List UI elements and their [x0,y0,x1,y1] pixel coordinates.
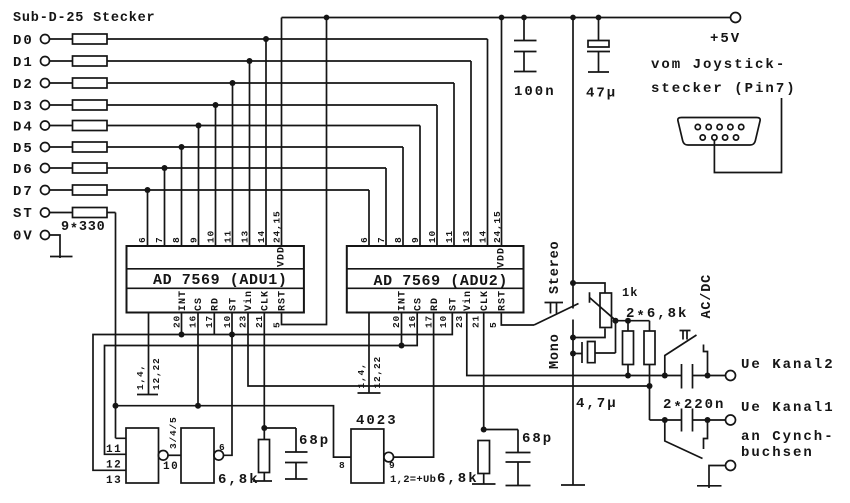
svg-text:4023: 4023 [356,413,398,429]
svg-text:13: 13 [240,230,251,243]
svg-text:RST: RST [498,290,509,311]
svg-text:11: 11 [106,444,122,456]
wire U1 Vin to Kanal1 coupling [248,313,649,387]
svg-text:6: 6 [219,442,226,453]
potentiometer 1k [573,283,638,338]
svg-text:CLK: CLK [480,290,491,311]
wire U1 CLK pin down [263,313,265,440]
wire gate U3a out to U3b [168,454,182,456]
svg-text:AD 7569 (ADU1): AD 7569 (ADU1) [153,272,287,289]
wire U1 ST pin to gate2 output [223,313,232,456]
wire pin7 annotation [714,98,781,173]
svg-text:ST: ST [229,297,240,311]
svg-text:8: 8 [393,236,404,243]
svg-text:14: 14 [478,230,489,243]
node +5V terminal [731,13,741,23]
junction rail x326.5 [324,15,330,21]
capacitor 220n Kanal1 [682,409,693,432]
junction D2 [230,80,236,86]
connector joystick DB9 shell [678,118,760,146]
junction pot bottom [570,335,576,341]
svg-text:VDD: VDD [497,247,508,268]
wire U1 RST to +5V [282,18,327,325]
junction D1 [247,58,253,64]
resistor R D5 [73,142,108,152]
capacitor 4,7u electrolytic [573,321,618,412]
svg-text:AD 7569 (ADU2): AD 7569 (ADU2) [374,273,508,290]
op-amp U1 AD7569 ADU1 body [127,246,304,313]
svg-text:7: 7 [154,236,165,243]
junction Kanal1 right [705,417,711,423]
U1 pin numbers bottom [172,315,283,328]
svg-text:Ue Kanal2: Ue Kanal2 [741,357,835,373]
gate U3a 4023 [106,428,179,487]
junction rail x598.5 [596,15,602,21]
wire U2 INT pin [401,313,403,346]
U2 pin numbers bottom [391,315,499,328]
svg-text:stecker (Pin7): stecker (Pin7) [651,81,797,97]
svg-text:10: 10 [163,461,179,473]
svg-text:1k: 1k [622,286,638,300]
junction rail x501.5 [499,15,505,21]
svg-text:AC/DC: AC/DC [700,274,715,319]
node Ue Kanal1 terminal [726,415,736,425]
wire ST strobe line to gate pin11 and bus C [116,406,352,457]
ground symbol right [697,485,722,487]
wire D5 [50,147,404,246]
resistor 6,8k b [437,441,496,488]
junction Kanal2 left [662,373,668,379]
node Ue Kanal2 terminal [726,371,736,381]
junction ST U1 on bus A [229,332,235,338]
svg-text:4,7µ: 4,7µ [576,396,618,412]
svg-text:21: 21 [254,315,265,328]
svg-text:21: 21 [471,315,482,328]
junction D5 [179,144,185,150]
junction Ra Kanal2 [625,373,631,379]
svg-text:CS: CS [414,297,425,311]
wire +5V drop x573 upper [572,18,574,309]
ground 0V [50,256,73,258]
svg-text:68p: 68p [522,431,553,447]
svg-text:9*330: 9*330 [61,220,106,238]
svg-text:1,2=+Ub: 1,2=+Ub [390,474,436,486]
junction D0 [263,36,269,42]
svg-text:7: 7 [376,236,387,243]
junction Vin U1 line at R 6,8k b [647,383,653,389]
svg-text:+5V: +5V [710,31,741,47]
node D5 [13,141,50,157]
resistor 6,8k a [218,440,272,489]
junction CLK U2 [481,427,487,433]
junction rail x524 [521,15,527,21]
junction 4,7u at x573 [570,351,576,357]
svg-text:8: 8 [339,460,346,471]
svg-text:10: 10 [427,230,438,243]
wire U2 CLK pin down [483,313,485,430]
wire U1 pin 24,15 to +5V rail [281,18,283,247]
node D3 [13,99,50,115]
svg-text:vom Joystick-: vom Joystick- [651,57,786,73]
svg-text:buchsen: buchsen [741,445,814,461]
svg-text:16: 16 [188,315,199,328]
node D0 [13,33,50,49]
resistor 2x6,8k Ra [623,331,634,365]
resistor R D0 [73,34,108,44]
svg-text:ST: ST [449,297,460,311]
svg-text:12: 12 [106,460,122,472]
svg-text:Stereo: Stereo [548,241,563,294]
wire ST [50,213,116,439]
junction D7 [145,187,151,193]
wire U2 RD to gate3 output [393,313,433,458]
switch ground Kanal1 [665,420,708,459]
junction D3 [213,102,219,108]
resistor R D2 [73,78,108,88]
junction CLK U1 [261,425,267,431]
svg-text:3/4/5: 3/4/5 [168,416,179,449]
ground pins 1,4,12,22 U1 [135,313,162,395]
junction CS U1 on bus C [195,403,201,409]
svg-text:47µ: 47µ [586,86,617,102]
gate U3c 4023 [339,413,398,483]
wire bus A (INT/RD/ST U1 to ST U2, to gate pin13) [93,313,452,471]
svg-text:0V: 0V [13,229,34,245]
wire ground drop x573 lower [561,320,585,486]
resistor R D7 [73,185,108,195]
wire Ra bottom to Kanal2 line [627,365,629,376]
wire 0V [50,235,61,258]
wire D0 [50,39,488,246]
capacitor 100n [514,18,537,72]
svg-text:14: 14 [256,230,267,243]
svg-text:20: 20 [391,315,402,328]
wire U1 RD pin [213,313,215,335]
svg-text:Vin: Vin [462,290,474,311]
svg-text:23: 23 [454,315,465,328]
connector joystick pins row2 [700,135,739,140]
capacitor 68p b [484,430,554,486]
svg-text:CS: CS [194,297,205,311]
svg-text:D6: D6 [13,162,34,178]
node D6 [13,162,50,178]
svg-text:23: 23 [238,315,249,328]
svg-text:D7: D7 [13,184,34,200]
svg-text:10: 10 [206,230,217,243]
junction ST line [113,403,119,409]
junction INT U1 on bus A [179,332,185,338]
svg-text:5: 5 [488,321,499,328]
U1 pin names bottom [178,290,289,311]
resistor R ST [73,208,108,218]
node ground terminal [726,461,736,471]
svg-text:RST: RST [278,290,289,311]
junction pot top [570,280,576,286]
switch stereo/mono S1 [534,241,579,369]
svg-text:INT: INT [178,290,189,311]
U2 pin names bottom [398,290,509,311]
wire D6 [50,168,387,246]
svg-text:1,4,: 1,4, [356,362,367,388]
svg-text:9: 9 [189,236,200,243]
capacitor 47u electrolytic [587,18,610,73]
svg-text:INT: INT [398,290,409,311]
wire U2 Vin to Kanal2 line [467,313,726,376]
svg-text:ST: ST [13,206,34,222]
svg-text:RD: RD [430,297,441,311]
svg-text:9: 9 [410,236,421,243]
svg-text:6,8k: 6,8k [437,471,479,487]
junction Kanal2 right [705,373,711,379]
capacitor 68p a [264,428,330,479]
svg-text:an Cynch-: an Cynch- [741,429,835,445]
node D2 [13,77,50,93]
ground pins 1,4,12,22 U2 [356,313,383,394]
svg-text:D3: D3 [13,99,34,115]
svg-text:CLK: CLK [261,290,272,311]
svg-text:13: 13 [106,475,122,487]
node ST [13,206,50,222]
wire U2 pin 24,15 to +5V rail [501,18,503,247]
U2 pin numbers top [359,210,503,243]
svg-text:10: 10 [438,315,449,328]
wire wiper node [616,321,650,331]
svg-text:1,4,: 1,4, [135,364,146,390]
junction D6 [162,165,168,171]
wire U1 CS pin [197,313,199,406]
junction Ra top [625,318,631,324]
svg-text:D0: D0 [13,33,34,49]
svg-text:6: 6 [359,236,370,243]
resistor R D1 [73,56,108,66]
wire bus B (INT/CS U2 to gate pin12) [105,313,418,455]
svg-text:D1: D1 [13,55,34,71]
resistor R D3 [73,100,108,110]
svg-text:13: 13 [461,230,472,243]
resistor R D6 [73,163,108,173]
svg-text:68p: 68p [299,433,330,449]
svg-text:D4: D4 [13,120,34,136]
wire +5V rail [282,17,731,19]
svg-text:Mono: Mono [548,333,563,369]
wire U1 INT pin [181,313,183,335]
svg-text:6,8k: 6,8k [218,472,260,488]
wire D3 [50,105,438,246]
wire D1 [50,61,472,246]
node D4 [13,120,50,136]
switch AC/DC Kanal2 [665,331,708,376]
resistor 2x6,8k Rb [644,331,655,365]
node D7 [13,184,50,200]
svg-text:Ue Kanal1: Ue Kanal1 [741,400,835,416]
wire ground terminal [709,466,726,489]
U1 pin numbers top [137,210,283,243]
svg-text:100n: 100n [514,84,556,100]
gate U3b 4023 [168,416,226,483]
junction wiper [613,318,619,324]
svg-text:12,22: 12,22 [151,357,162,390]
wire Rb bottom to Kanal1 line [650,365,726,421]
svg-text:D2: D2 [13,77,34,93]
svg-text:RD: RD [211,297,222,311]
junction INT U2 on bus B [399,343,405,349]
junction D4 [196,123,202,129]
wire D7 [50,190,370,246]
svg-text:VDD: VDD [277,246,288,267]
svg-text:12,22: 12,22 [372,356,383,389]
svg-text:8: 8 [171,236,182,243]
capacitor 220n Kanal2 [682,364,693,389]
node D1 [13,55,50,71]
connector joystick pins row1 [695,124,744,129]
svg-text:D5: D5 [13,141,34,157]
junction rail x573 [570,15,576,21]
svg-text:Vin: Vin [243,290,255,311]
wire D4 [50,126,421,247]
junction Kanal1 left [662,417,668,423]
svg-text:11: 11 [444,230,455,243]
op-amp U2 AD7569 ADU2 body [347,246,524,313]
svg-text:Sub-D-25 Stecker: Sub-D-25 Stecker [13,11,155,26]
resistor R D4 [73,121,108,131]
node 0V [13,229,50,245]
wire U2 RST to stereo switch [501,313,534,326]
svg-text:9: 9 [389,460,396,471]
svg-text:6: 6 [137,236,148,243]
svg-text:11: 11 [223,230,234,243]
wire D2 [50,83,455,246]
svg-text:17: 17 [204,315,215,328]
